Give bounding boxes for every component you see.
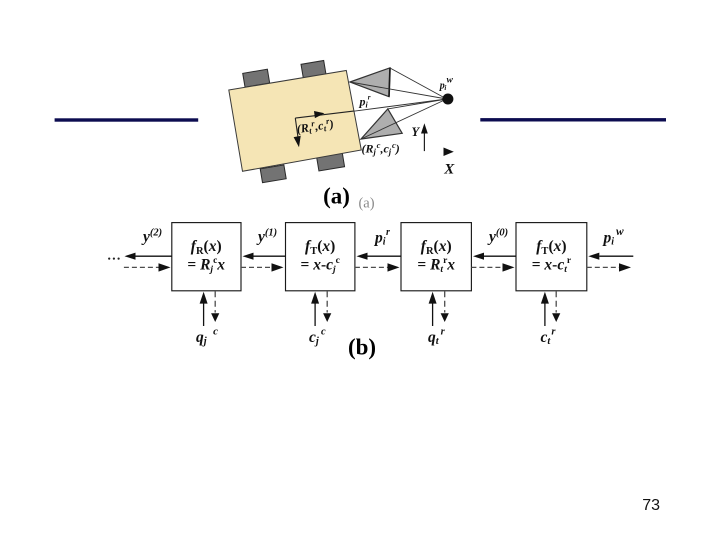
robot frame y-axis [295,118,298,141]
box f_R(x)=R_t^r x [401,223,471,291]
world Y axis arrow [423,131,425,151]
svg-text:(b): (b) [348,334,376,359]
robot frame x-axis [295,111,353,118]
wire dashed into box1 left [124,266,159,268]
ellipsis dots far left [108,258,110,260]
arrowhead left end [125,253,136,260]
svg-text:= Rtrx: = Rtrx [417,256,455,275]
camera FOV triangle lower [361,109,402,139]
box4 parameter output arrow (dashed down) [555,291,557,312]
wheel front-left [243,69,270,87]
world X axis arrowhead glyph [444,148,454,157]
wheel rear-right [317,153,345,171]
svg-text:= Rjcx: = Rjcx [187,256,225,275]
arrowhead dashed right [159,263,171,271]
wire solid input p_i^w to box4 [599,255,633,257]
box f_R(x)=R_j^c x [172,223,241,291]
svg-text:fT(x): fT(x) [536,238,566,257]
wire solid box4 to box3 [484,255,516,257]
box4 parameter input arrow (solid up) [544,302,546,327]
box3 parameter output arrow (dashed down) [444,291,446,312]
svg-text:fT(x): fT(x) [305,238,335,257]
box1 parameter output arrow (dashed down) [214,291,216,312]
ray to upper camera top corner [390,68,447,99]
camera FOV triangle upper [350,68,390,97]
wheel front-right [301,60,326,78]
box2 parameter input arrow (solid up) [314,302,316,327]
left divider line [55,118,199,121]
robot body [229,71,361,172]
robot frame x-axis arrowhead [314,111,325,118]
box3 parameter input arrow (solid up) [432,302,434,327]
wire dashed box2 to box3 [355,266,388,268]
box1 parameter input arrow (solid up) [203,302,205,327]
box2 parameter output arrow (dashed down) [326,291,328,312]
wire solid box2 to box1 [254,255,286,257]
svg-text:(a): (a) [323,184,350,209]
wire solid out of box1 left [135,255,172,257]
box f_T(x)=x-c_j^c [286,223,355,291]
wire dashed box3 to box4 [471,266,502,268]
upper camera base edge [389,68,390,97]
ray to lower camera apex [361,99,447,139]
wheel rear-left [260,165,286,183]
svg-text:fR(x): fR(x) [421,238,452,257]
wire dashed box1 to box2 [241,266,272,268]
svg-text:73: 73 [642,497,660,514]
world point p_i^w dot [442,94,453,105]
wire solid box3 to box2 [368,255,402,257]
ray to upper camera apex [350,82,447,99]
ray to lower camera top corner [388,99,447,109]
box f_T(x)=x-c_t^r [516,223,587,291]
svg-text:(a): (a) [358,196,374,212]
wire dashed box4 out right [587,266,619,268]
world Y axis arrowhead [421,123,428,133]
right divider line [480,118,666,121]
svg-text:fR(x): fR(x) [191,238,222,257]
ray to point p_i^r on body [354,99,447,111]
svg-text:X: X [443,162,455,178]
robot frame y-axis arrowhead [294,136,301,147]
